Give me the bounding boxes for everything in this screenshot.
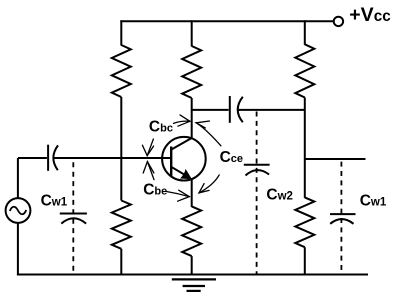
arrow: Cbc to base wire: [142, 139, 153, 156]
capacitor Cw1 curved plate: [330, 219, 353, 224]
wire: collector output node to coupling capacitor: [192, 109, 229, 111]
wiring capacitance Cw1 dashed branch (load side): [340, 162, 342, 275]
capacitor CC (coupling capacitor) left plate: [229, 96, 231, 123]
terminal: +Vcc open-circle terminal: [334, 17, 343, 26]
wiring capacitance Cw2 dashed branch (output side): [256, 112, 258, 275]
resistor R1 (upper left bias resistor): [112, 45, 131, 97]
wire: source top lead up to input wire: [17, 158, 19, 199]
wire: emitter resistor bottom lead: [191, 256, 193, 274]
transistor Q1 (NPN BJT) circle: [162, 137, 206, 181]
capacitor Cw2 top plate: [244, 164, 270, 166]
svg-text:Cw2: Cw2: [266, 187, 293, 204]
capacitor CC curved plate: [238, 97, 243, 123]
wire: source to input coupling capacitor: [18, 157, 47, 159]
wire: ground bottom rail: [18, 274, 367, 276]
arrow: Cce to collector wire (curved): [196, 121, 221, 146]
svg-text:Cbc: Cbc: [149, 118, 173, 135]
transistor Q1 emitter stroke with arrow: [171, 167, 189, 178]
capacitor Cw1 curved plate: [61, 218, 86, 223]
wire: left branch top lead: [120, 20, 122, 45]
svg-text:Cce: Cce: [220, 149, 243, 166]
AC signal source Vs: [6, 198, 31, 223]
capacitor Cw1 (input wiring capacitance) top plate: [60, 213, 87, 215]
wire: left branch bottom lead: [120, 249, 122, 275]
wire: left branch middle lead down to input node: [120, 97, 122, 158]
wire: collector branch top lead: [191, 20, 193, 46]
resistor RE (emitter resistor): [182, 206, 201, 256]
wire: emitter lead down to emitter resistor: [191, 179, 193, 207]
resistor R4 (lower right load resistor): [295, 197, 314, 247]
wire: right branch top lead: [304, 20, 306, 45]
wire: collector lead from resistor through output node to transistor: [191, 98, 193, 138]
arrow: Cbe to emitter wire: [166, 190, 190, 201]
svg-text:Cbe: Cbe: [143, 182, 167, 199]
wire: input capacitor to transistor base: [54, 157, 172, 159]
wire: coupling capacitor to right branch: [238, 109, 305, 111]
ground symbol: [172, 279, 216, 291]
transistor Q1 base bar: [170, 147, 172, 177]
arrow: Cbe to base wire: [143, 162, 154, 180]
wire: left branch lead below input node: [120, 158, 122, 201]
wire: right branch lead through output and load nodes: [304, 98, 306, 198]
wiring capacitance Cw1 dashed branch (input side): [72, 162, 74, 274]
capacitor CS (input coupling capacitor) left plate: [47, 145, 49, 171]
arrow: Cbc to collector wire: [174, 115, 190, 126]
capacitor Cw1 (load wiring capacitance) top plate: [330, 213, 356, 215]
resistor RC (collector load resistor): [182, 46, 201, 98]
wire: +Vcc top supply rail: [121, 20, 333, 22]
svg-text:Cw1: Cw1: [41, 193, 68, 210]
capacitor Cw2 curved plate: [246, 170, 270, 175]
wire: load node output stub: [305, 158, 366, 160]
resistor R2 (lower left bias resistor): [112, 201, 131, 249]
svg-text:+Vcc: +Vcc: [349, 4, 391, 26]
svg-text:Cw1: Cw1: [360, 192, 387, 209]
transistor Q1 collector stroke: [171, 138, 192, 150]
capacitor CS curved plate: [53, 145, 58, 170]
resistor R3 (upper right resistor): [295, 44, 314, 97]
wire: source bottom lead to ground rail: [17, 223, 19, 275]
wire: right branch bottom lead: [304, 247, 306, 274]
arrow: Cce to emitter wire (curved): [199, 175, 219, 193]
